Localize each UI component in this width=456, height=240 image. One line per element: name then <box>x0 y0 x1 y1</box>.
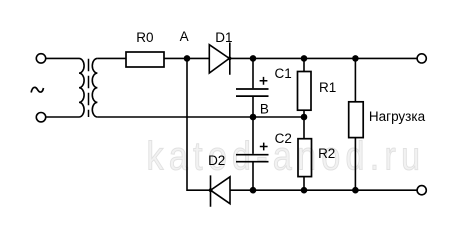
svg-text:R1: R1 <box>319 80 336 95</box>
wire D2 to bottom rail <box>230 189 417 191</box>
svg-text:R0: R0 <box>136 30 153 45</box>
wire secondary bottom / mid rail to R1 foot <box>97 116 304 118</box>
wire secondary top to R0 <box>97 57 126 59</box>
terminal IN top <box>36 54 45 63</box>
junction dot mid rail R1/R2 <box>301 114 308 121</box>
svg-text:C1: C1 <box>274 66 291 81</box>
svg-text:B: B <box>260 101 269 116</box>
capacitor C1 <box>236 58 269 117</box>
capacitor C2 <box>236 117 269 190</box>
wire R0 to node A <box>164 57 209 59</box>
diode D1 <box>209 43 230 75</box>
load Нагрузка <box>349 58 364 190</box>
junction dot bottom rail load <box>352 187 359 194</box>
wire node A down <box>187 58 211 190</box>
transformer T1 primary winding <box>79 58 84 117</box>
D1 apex dot <box>228 57 232 61</box>
svg-text:D2: D2 <box>208 153 225 168</box>
terminal IN bottom <box>36 113 45 122</box>
wire D1 to top rail <box>230 57 417 59</box>
transformer core <box>88 59 90 117</box>
svg-text:A: A <box>180 29 189 44</box>
junction dot top rail R1 <box>301 55 308 62</box>
svg-text:Нагрузка: Нагрузка <box>369 109 426 124</box>
transformer secondary winding <box>92 58 97 117</box>
diode D2 <box>211 175 231 206</box>
svg-text:D1: D1 <box>215 30 232 45</box>
svg-text:C2: C2 <box>275 131 292 146</box>
junction dot bottom rail R2 <box>301 187 308 194</box>
watermark katod-anod.ru <box>147 133 421 178</box>
svg-text:R2: R2 <box>318 146 335 161</box>
node A junction dot <box>184 55 191 62</box>
resistor R1 <box>298 58 312 117</box>
D2 apex dot <box>209 188 213 192</box>
resistor R0 <box>126 52 164 67</box>
junction dot bottom rail C2 <box>250 187 257 194</box>
terminal OUT top <box>417 54 426 63</box>
terminal OUT bottom <box>417 186 426 195</box>
wire primary top <box>46 57 79 59</box>
node B junction dot <box>250 114 257 121</box>
resistor R2 <box>298 117 312 190</box>
AC tilde <box>31 87 43 92</box>
junction dot top rail C1 <box>250 55 257 62</box>
junction dot top rail load <box>352 55 359 62</box>
wire primary bottom <box>46 116 79 118</box>
